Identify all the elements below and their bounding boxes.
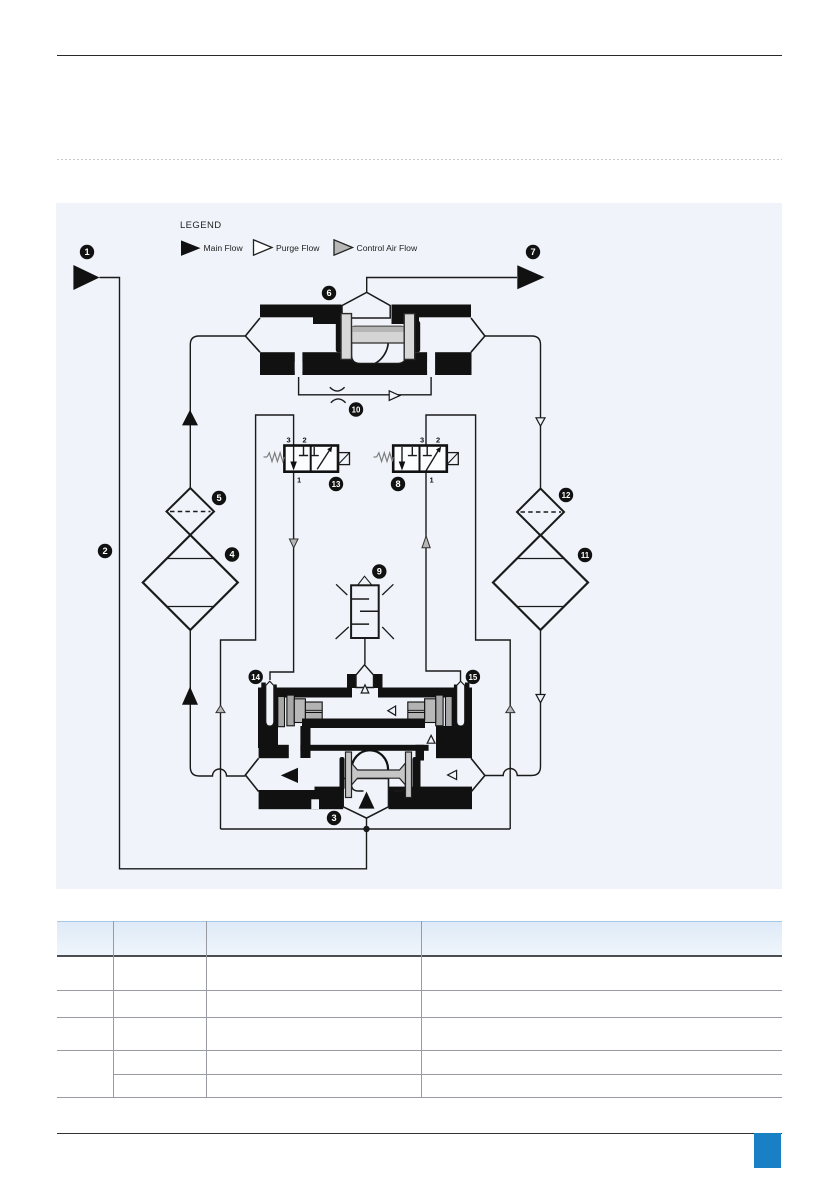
bottom bar center slab [302, 352, 427, 375]
right cell tee [310, 447, 319, 456]
spool plate left [341, 314, 352, 360]
spring [267, 453, 284, 462]
label circle 3 [327, 811, 341, 825]
spool flange band [352, 326, 405, 343]
right pilot slot [457, 681, 465, 726]
pass-through with arrow (3 to 1) [293, 446, 295, 465]
right end column [416, 747, 421, 788]
shuttle valve 6: top outlet valve body [245, 292, 485, 376]
right entry shoulders [465, 683, 470, 689]
left cell tee [408, 447, 417, 456]
spool o-ring left [340, 757, 345, 790]
left cell arrow [401, 447, 403, 464]
arrow: control air up on left exhaust line [216, 705, 225, 712]
label circle 10 [349, 402, 363, 416]
bottom row left [259, 790, 316, 809]
wire [540, 536, 542, 631]
solenoid valve 13 [264, 436, 350, 485]
spool o-ring right [415, 321, 421, 353]
footer rule [57, 1133, 782, 1134]
svg-text:6: 6 [326, 288, 331, 298]
port labels [420, 436, 440, 485]
left chevron [245, 318, 260, 352]
left flow arrow between pistons [388, 706, 396, 715]
label circle 6 [322, 286, 336, 300]
purge valve assembly: check-valve section 14/15 [258, 665, 472, 758]
arrow: main flow up, left riser lower [182, 687, 198, 705]
spool I-beam [352, 763, 406, 785]
solenoid valve 8 [374, 436, 459, 485]
svg-text:1: 1 [430, 476, 434, 485]
arrow: main flow up, left riser upper [182, 410, 198, 426]
label circle 9 [372, 564, 386, 578]
wire [189, 535, 191, 630]
right block [436, 726, 470, 758]
label circle 5 [212, 491, 226, 505]
svg-text:Control Air Flow: Control Air Flow [357, 243, 418, 253]
svg-text:3: 3 [420, 436, 424, 445]
table row lines [57, 990, 782, 991]
top bar right [392, 305, 472, 318]
vessel 11: right tower diamond [493, 535, 588, 630]
label circle 4 [225, 547, 239, 561]
left pilot slot [266, 681, 274, 726]
top bar right center step [392, 317, 420, 324]
arrow: outlet (7) [517, 265, 544, 289]
svg-text:8: 8 [395, 479, 400, 489]
arrow: purge flow down, right riser lower [536, 695, 545, 703]
filter F5: prefilter diamond (dashed) [167, 488, 215, 535]
svg-text:Main Flow: Main Flow [204, 243, 244, 253]
wire: left riser lower part with hop, into bottom valve left port [190, 630, 245, 776]
label circle 1 [80, 245, 94, 259]
top bar left [260, 305, 342, 318]
label circle 12 [559, 488, 573, 502]
svg-text:7: 7 [530, 247, 535, 257]
wire: outlet manifold line [221, 828, 511, 830]
label circle 2 [98, 544, 112, 558]
label circle 14 [249, 670, 263, 684]
label circle 8 [391, 477, 405, 491]
wire: top valve apex to arrow 7 [367, 278, 517, 293]
svg-text:11: 11 [581, 551, 590, 560]
spool o-ring left [336, 321, 342, 353]
table column dividers [113, 921, 114, 1097]
up arrow below muffler port [361, 685, 369, 693]
legend purge-flow symbol [254, 240, 273, 255]
top bar left [258, 688, 352, 698]
muffler 9 [336, 576, 394, 639]
svg-text:4: 4 [229, 550, 235, 560]
label circle 7 [526, 245, 540, 259]
legend main-flow symbol [181, 240, 201, 256]
solenoid coil box [447, 453, 459, 465]
spool plate right [406, 752, 412, 798]
right port notch [427, 362, 435, 377]
label circle 11 [578, 548, 592, 562]
svg-text:9: 9 [377, 567, 382, 577]
svg-text:1: 1 [84, 247, 89, 257]
legend control-air-flow symbol [334, 240, 353, 255]
bottom bar left outer [260, 352, 295, 375]
wire: inlet loop (arrow1 right, down left side, along bottom to outlet junction) [100, 278, 367, 869]
node: outlet junction dot [363, 826, 369, 832]
dashed divider [57, 159, 782, 160]
purge check arrow on bypass line [389, 391, 400, 401]
label circle 15 [466, 670, 480, 684]
svg-text:3: 3 [331, 813, 336, 823]
svg-text:14: 14 [251, 673, 260, 682]
left entry shoulders [261, 683, 266, 689]
purge valve assembly: spool section 3 [245, 745, 485, 818]
arrow: inlet (1) [73, 265, 99, 290]
right cell flow arrow [317, 450, 329, 469]
top rule [57, 55, 782, 56]
svg-text:3: 3 [287, 436, 291, 445]
arrow: control air up on right exhaust line [506, 705, 515, 712]
purge flow right arrow [448, 770, 457, 779]
svg-text:2: 2 [303, 436, 307, 445]
check piston 14 [278, 697, 285, 727]
wire: right riser lower part with hop, into bottom valve right port [485, 630, 541, 776]
up arrow in right channel [427, 735, 435, 743]
svg-text:15: 15 [469, 673, 478, 682]
spool plate right [404, 314, 415, 360]
left connector [300, 726, 310, 758]
diagram panel [56, 203, 782, 889]
right chevron [471, 758, 485, 792]
wire: bottom valve apex to outlet junction [366, 818, 368, 829]
check piston 15 [446, 697, 453, 727]
left port notch [295, 362, 303, 377]
table header band [57, 921, 782, 957]
svg-text:2: 2 [102, 546, 107, 556]
ball seat arc [375, 342, 388, 364]
svg-text:2: 2 [436, 436, 440, 445]
right cell flow arrow (1 to 2) [426, 451, 438, 472]
right wall [452, 688, 472, 749]
arrow: purge flow down, right riser upper [536, 418, 545, 426]
main flow left arrow [281, 768, 298, 783]
left wall [258, 688, 278, 749]
wire: muffler to bottom assembly [364, 638, 366, 665]
svg-text:13: 13 [332, 480, 341, 489]
wire: pilot box right (valve8 port3 to exhaust drop) [426, 415, 510, 829]
wire: pilot box left (valve13 port3 to exhaust drop) [221, 415, 294, 829]
blue footer square [754, 1133, 781, 1168]
top row segments [259, 745, 289, 758]
blocked port 2 tee [299, 446, 308, 456]
arrow: control air up on right pilot line [422, 536, 430, 548]
filter F12: prefilter diamond (dashed) [517, 489, 564, 536]
wire: top valve purge bypass line [299, 377, 432, 395]
outlet pentagon [343, 779, 388, 819]
svg-text:1: 1 [297, 476, 301, 485]
solenoid coil box [338, 453, 350, 465]
bottom bar right outer [435, 352, 471, 375]
label circle 13 [329, 477, 343, 491]
wire: valve8 port1 down to right pilot entry [426, 472, 461, 681]
wire: left main riser (top valve left port down to filters) [190, 336, 245, 488]
vessel 4: left tower diamond [143, 535, 238, 630]
ball dome arc [351, 750, 388, 770]
muffler port house [356, 665, 374, 688]
top bar left center step [313, 317, 342, 324]
svg-text:5: 5 [216, 493, 221, 503]
spool plate left [346, 752, 352, 798]
outlet up arrow [359, 792, 375, 809]
port labels [287, 436, 307, 485]
top bar right [378, 688, 472, 698]
svg-text:LEGEND: LEGEND [180, 220, 221, 231]
right cell tee (port 3) [423, 446, 432, 456]
lower chamber cavity [352, 343, 407, 364]
right chevron [471, 318, 485, 352]
purge restriction symbol on bypass line [330, 387, 345, 391]
left chevron [245, 758, 258, 791]
spring [377, 453, 394, 462]
spool o-ring right [413, 757, 418, 790]
spool cavity hooks [352, 778, 406, 791]
arrow: control air down on left pilot line [289, 539, 298, 548]
center shoulders [347, 674, 356, 688]
wire: right main riser (top valve right port down to filters) [485, 336, 541, 489]
middle bar [302, 719, 425, 729]
svg-text:12: 12 [562, 491, 571, 500]
svg-text:Purge Flow: Purge Flow [276, 243, 320, 253]
legend [180, 220, 418, 253]
bottom row right [389, 787, 473, 810]
svg-text:10: 10 [352, 406, 361, 415]
outlet house port [342, 292, 390, 318]
wire: valve13 port1 down to left pilot entry [270, 472, 294, 680]
